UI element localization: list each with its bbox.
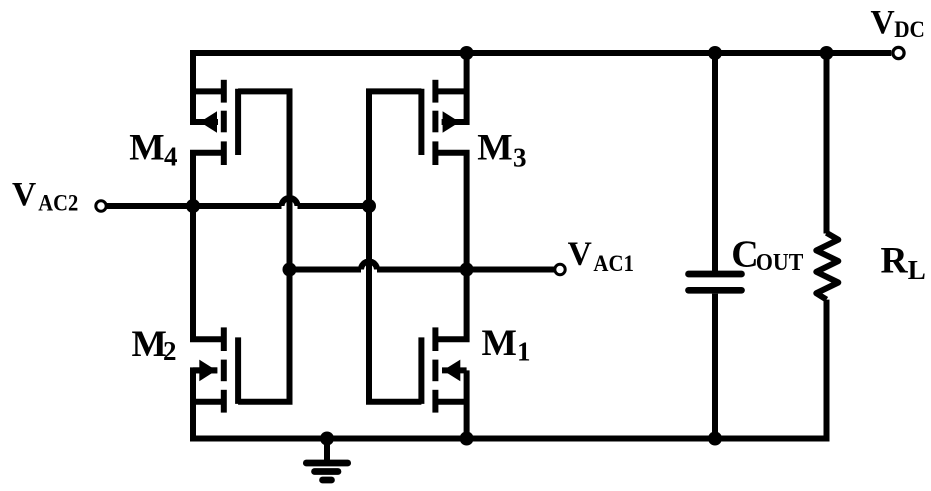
transistor M4 drain stub bbox=[193, 88, 222, 94]
wire hop over line1 on VAC2 line bbox=[282, 198, 298, 206]
wire hop over line2 on VAC1 line bbox=[361, 262, 377, 270]
terminal VAC2 open circle bbox=[96, 201, 106, 211]
svg-text:V: V bbox=[12, 176, 36, 213]
capacitor COUT top plate bbox=[689, 271, 742, 278]
node dot top rail at RL bbox=[820, 46, 834, 60]
terminal VAC1 open circle bbox=[555, 264, 565, 274]
transistor M2 source stub bbox=[193, 399, 222, 405]
svg-text:DC: DC bbox=[894, 17, 925, 43]
transistor M4 channel contact bars bbox=[221, 80, 227, 103]
wire bottom rail ground net from M2 corner to RL corner bbox=[193, 300, 827, 439]
transistor M1 source stub bbox=[437, 399, 467, 405]
transistor M3 body lead bbox=[442, 119, 467, 125]
transistor M4 gate bar bbox=[235, 89, 241, 155]
transistor M1 gate bar bbox=[418, 337, 424, 404]
svg-text:M: M bbox=[132, 324, 167, 365]
node dot bottom rail at ground bbox=[320, 432, 334, 446]
svg-text:OUT: OUT bbox=[756, 250, 803, 276]
transistor M3 PMOS body arrow pointing right bbox=[443, 111, 460, 133]
node dot top rail at COUT bbox=[708, 46, 722, 60]
svg-text:AC1: AC1 bbox=[593, 251, 634, 277]
svg-text:1: 1 bbox=[517, 336, 531, 366]
svg-text:AC2: AC2 bbox=[38, 191, 78, 217]
resistor RL zigzag bbox=[816, 233, 838, 300]
wire M1 source column to bottom rail bbox=[464, 370, 470, 438]
transistor M2 NMOS body arrow pointing right bbox=[199, 360, 216, 382]
wire gate line1: M4 gate over to M2 gate bbox=[238, 91, 289, 401]
wire top rail VDC with left corner down into M4 bbox=[193, 53, 891, 125]
capacitor COUT top wire bbox=[712, 53, 718, 271]
wire VAC1 line from line1 node to hop bbox=[290, 267, 362, 273]
transistor M3 drain stub bbox=[437, 88, 467, 94]
node dot bottom rail at COUT bbox=[708, 432, 722, 446]
node dot bottom rail at M1 column bbox=[460, 432, 474, 446]
svg-text:C: C bbox=[731, 233, 758, 275]
transistor M1 NMOS body arrow pointing left bbox=[443, 360, 460, 382]
ground bar 1 bbox=[306, 460, 347, 467]
ground stem bbox=[324, 439, 330, 461]
svg-text:2: 2 bbox=[163, 336, 177, 366]
transistor M1 body lead bbox=[442, 367, 467, 373]
svg-text:M: M bbox=[482, 323, 517, 364]
capacitor COUT bottom plate bbox=[689, 287, 742, 294]
ground bar 3 bbox=[323, 477, 332, 484]
capacitor COUT bottom wire bbox=[712, 294, 718, 439]
transistor M4 PMOS body arrow pointing left bbox=[200, 111, 217, 133]
svg-text:V: V bbox=[871, 4, 895, 41]
transistor M3 channel contact bars bbox=[432, 80, 438, 103]
node dot VAC2 at M4/M2 column bbox=[186, 199, 200, 213]
svg-text:M: M bbox=[477, 128, 512, 169]
wire VAC1 line from hop to terminal bbox=[377, 267, 554, 273]
terminal VDC open circle bbox=[893, 47, 904, 58]
svg-text:4: 4 bbox=[164, 142, 178, 172]
wire VAC2 line from hop to line2 bbox=[298, 203, 370, 209]
transistor M3 gate bar bbox=[418, 89, 424, 155]
svg-text:R: R bbox=[881, 241, 909, 282]
svg-text:3: 3 bbox=[513, 143, 527, 173]
transistor M2 gate bar bbox=[235, 337, 241, 404]
wire VAC2 input line from terminal to hop bbox=[107, 203, 282, 209]
resistor RL top wire bbox=[824, 53, 830, 234]
node dot VAC2 line meets line2 bbox=[362, 199, 376, 213]
transistor M2 channel contact bars bbox=[221, 327, 227, 351]
node dot top rail at M3 column bbox=[460, 46, 474, 60]
ground bar 2 bbox=[315, 468, 339, 475]
node dot VAC1 at M3/M1 column bbox=[460, 263, 474, 277]
wire M3 source stub down through VAC1 node to M1 drain stub bbox=[437, 153, 467, 340]
svg-text:L: L bbox=[908, 255, 926, 285]
svg-text:V: V bbox=[568, 236, 592, 273]
svg-text:M: M bbox=[129, 128, 164, 169]
node dot VAC1 line meets line1 bbox=[283, 263, 297, 277]
wire M4 source stub down through VAC2 node to M2 drain stub bbox=[193, 153, 222, 340]
transistor M2 body lead bbox=[193, 367, 217, 373]
transistor M4 body lead bbox=[193, 119, 218, 125]
wire gate line2: M3 gate over to M1 gate bbox=[369, 91, 421, 401]
transistor M1 channel contact bars bbox=[432, 327, 438, 351]
wire M3 drain column top segment bbox=[464, 53, 470, 125]
